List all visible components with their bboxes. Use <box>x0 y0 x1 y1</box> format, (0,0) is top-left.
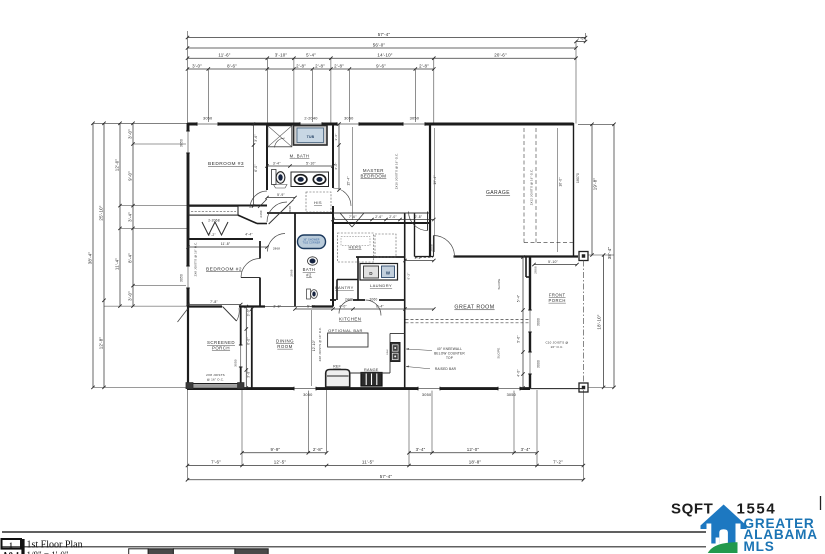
svg-text:GREAT ROOM: GREAT ROOM <box>454 305 494 311</box>
pantry door arc <box>339 300 353 314</box>
svg-text:12'-8": 12'-8" <box>99 337 104 350</box>
svg-text:3050: 3050 <box>203 115 213 120</box>
kitchen refrigerator <box>326 370 350 388</box>
exterior wall: left <box>187 123 190 307</box>
kitchen right wall / great room left <box>404 213 406 388</box>
bedroom3 bottom wall <box>188 205 267 207</box>
window 3050 rear wall bedroom3 <box>197 122 218 126</box>
svg-text:TOP: TOP <box>446 356 453 360</box>
svg-text:5'-4": 5'-4" <box>517 294 521 302</box>
interior dim bedroom3 right 3'-6 6'-0 <box>253 124 255 206</box>
window 3000 great room right wall 2 <box>528 352 532 374</box>
svg-text:SINK: SINK <box>387 349 389 355</box>
svg-text:6'-0": 6'-0" <box>254 164 258 171</box>
svg-text:16" O.C.: 16" O.C. <box>550 345 563 349</box>
svg-text:14'-10": 14'-10" <box>377 53 392 58</box>
svg-text:3'-8": 3'-8" <box>247 370 251 377</box>
svg-text:3'-4": 3'-4" <box>521 447 531 452</box>
bottom extension lines <box>187 390 189 480</box>
interior dim 5'-10 porch top <box>534 264 577 266</box>
hall top wall below master <box>333 212 430 214</box>
front entry door arc <box>434 236 455 257</box>
tub in master bath <box>294 126 328 146</box>
bath2 toilet upper <box>308 257 318 265</box>
window 3050 left wall bedroom3 <box>186 131 190 153</box>
svg-text:C10 JOISTS @: C10 JOISTS @ <box>545 341 568 345</box>
interior dim mbath right small <box>338 124 340 190</box>
svg-text:MASTER: MASTER <box>363 168 384 173</box>
dimension 57'-4" overall bottom <box>188 479 584 481</box>
garage ceiling joist dashed line <box>523 128 525 243</box>
window 3000 great room right wall <box>528 310 532 332</box>
kitchen optional bar box <box>328 333 368 347</box>
svg-text:2'-0": 2'-0" <box>389 215 397 219</box>
dimension string 3'-0 / 8'-6 / 2'-8 x3 / 9'-6 / 2'-8 <box>188 68 434 70</box>
garage header dashed line <box>524 242 573 244</box>
svg-text:6'-0": 6'-0" <box>247 337 251 344</box>
dimension 18'-10" right of porch <box>603 255 605 387</box>
interior dim 11'-8 below closet <box>188 246 267 248</box>
bath2 toilet <box>307 289 311 299</box>
laundry W washer box <box>382 266 395 278</box>
left extension lines <box>93 122 188 124</box>
bedroom2 / porch wall (bottom of left wing) <box>188 305 222 307</box>
svg-text:3'-4": 3'-4" <box>273 161 281 165</box>
bedroom2 right wall <box>259 241 261 259</box>
svg-text:2'-8": 2'-8" <box>296 63 306 68</box>
svg-text:7'-2": 7'-2" <box>208 233 216 237</box>
svg-text:#2: #2 <box>306 272 312 277</box>
svg-text:3000: 3000 <box>537 360 541 368</box>
svg-text:2'-8": 2'-8" <box>415 215 423 219</box>
interior dim porch-dining 3'-0 6'-0 3'-8 <box>245 307 247 389</box>
laundry D dryer box <box>360 264 398 281</box>
dimension 38'-4" left overall <box>92 123 94 387</box>
sheet right border tick <box>820 496 822 510</box>
closet 2-2068 box <box>189 206 238 215</box>
svg-text:GARAGE: GARAGE <box>486 190 510 196</box>
kitchen bar counter <box>350 372 390 374</box>
svg-text:3050: 3050 <box>180 139 184 147</box>
svg-text:3050: 3050 <box>422 392 432 397</box>
interior dim garage right 16'-0 line <box>557 128 559 252</box>
svg-text:1/8" = 1'-0": 1/8" = 1'-0" <box>27 550 69 554</box>
interior dim 3'-4 5'-10 mbath <box>267 165 333 167</box>
svg-text:2-2068: 2-2068 <box>208 219 219 223</box>
svg-text:2'-8": 2'-8" <box>334 63 344 68</box>
svg-text:TUB: TUB <box>307 135 315 139</box>
pantry top wall <box>337 279 358 281</box>
svg-text:3000: 3000 <box>537 318 541 326</box>
window 3050 bottom wall dining <box>294 387 316 391</box>
master interior dim 15'-4 <box>352 127 354 220</box>
svg-text:SQFT: SQFT <box>671 501 713 518</box>
svg-text:1'-6": 1'-6" <box>577 37 585 41</box>
interior dim 4'-2 foyer <box>405 260 434 262</box>
interior dim garage left 19'-4 line <box>434 128 436 252</box>
right extension lines <box>578 123 614 125</box>
dimension 38'-4" right overall <box>613 124 615 387</box>
svg-text:12'-10": 12'-10" <box>312 340 316 351</box>
svg-text:5'-9": 5'-9" <box>277 193 285 197</box>
title block vertical bar <box>21 539 24 554</box>
foyer right wall piece <box>414 213 416 257</box>
bedroom3 door arc (bottom wall) <box>250 191 267 208</box>
dimension 1'-6" top right <box>576 41 586 43</box>
sheet number box with 1 <box>2 539 22 549</box>
laundry left wall <box>357 257 359 300</box>
laundry-pantry bottom wall <box>330 299 336 301</box>
svg-text:4'-4": 4'-4" <box>245 232 253 236</box>
interior dim great room right 5'-4 5'-6 4'-0 <box>522 257 524 388</box>
svg-text:11'-6": 11'-6" <box>218 53 230 58</box>
svg-text:2X8 JOISTS: 2X8 JOISTS <box>206 373 225 377</box>
master bath vanity with two sinks <box>291 172 329 187</box>
svg-text:9'-0": 9'-0" <box>128 171 133 181</box>
svg-text:9'-9": 9'-9" <box>270 447 280 452</box>
svg-text:1: 1 <box>9 541 13 549</box>
window 3050 screened porch right wall <box>239 345 243 367</box>
svg-text:PANTRY: PANTRY <box>335 285 354 290</box>
master bath toilet <box>272 170 277 185</box>
svg-text:12'-0": 12'-0" <box>115 159 120 172</box>
garage left wall <box>429 124 431 257</box>
svg-text:40" KNEEWALL: 40" KNEEWALL <box>437 347 462 351</box>
svg-text:2'-8": 2'-8" <box>313 447 323 452</box>
HIS closet dashed <box>306 192 331 212</box>
front porch dash-dot edge <box>582 261 584 384</box>
garage right wall with 18070 garage door <box>573 123 575 257</box>
svg-text:REF: REF <box>333 365 341 369</box>
svg-text:W: W <box>386 270 391 275</box>
svg-text:7'-6": 7'-6" <box>211 459 221 464</box>
svg-text:18'-10": 18'-10" <box>597 314 602 329</box>
svg-text:1554: 1554 <box>737 501 777 518</box>
svg-text:2'-8": 2'-8" <box>315 63 325 68</box>
svg-text:7'-8": 7'-8" <box>210 300 218 304</box>
svg-text:KITCHEN: KITCHEN <box>339 317 361 322</box>
svg-text:2X12 JOISTS @ 16" O.C.: 2X12 JOISTS @ 16" O.C. <box>530 169 534 206</box>
svg-text:BEDROOM #3: BEDROOM #3 <box>208 161 244 167</box>
svg-text:3050: 3050 <box>303 392 313 397</box>
svg-text:11'-4": 11'-4" <box>115 258 120 270</box>
svg-text:3'-0": 3'-0" <box>247 309 251 316</box>
svg-text:5'-10": 5'-10" <box>306 161 316 165</box>
svg-text:DINING: DINING <box>276 339 294 344</box>
svg-text:11'-5": 11'-5" <box>362 459 374 464</box>
svg-text:18070: 18070 <box>576 173 580 183</box>
title block second rule <box>2 546 706 548</box>
interior dim string mid 2'-8 5'-6 4' 6'-4 <box>295 308 434 310</box>
svg-text:4'-0": 4'-0" <box>339 305 347 309</box>
porch corner post bottom-right <box>238 383 244 389</box>
svg-text:19'-4": 19'-4" <box>433 175 437 184</box>
kitchen range <box>361 373 382 387</box>
title block top rule <box>2 531 706 533</box>
kitchen sink unit <box>391 343 401 362</box>
svg-text:16'-0": 16'-0" <box>558 177 562 186</box>
svg-text:2X8 JOISTS @ 16" O.C.: 2X8 JOISTS @ 16" O.C. <box>318 327 322 362</box>
coat closet dashed right of hers <box>375 234 396 257</box>
porch-dining gap wall stub <box>241 306 252 308</box>
front wall of house / garage bottom <box>454 255 579 257</box>
svg-text:15'-4": 15'-4" <box>347 176 351 185</box>
svg-text:6'-4": 6'-4" <box>376 305 384 309</box>
great room kneewall dashed lines <box>406 319 530 321</box>
svg-text:4'-0": 4'-0" <box>517 369 521 377</box>
svg-text:57'-4": 57'-4" <box>380 474 393 479</box>
svg-text:@ 16" O.C.: @ 16" O.C. <box>207 378 224 382</box>
svg-text:BELOW COUNTER: BELOW COUNTER <box>434 352 465 356</box>
svg-text:2068: 2068 <box>288 206 292 213</box>
exterior wall: top (rear) of house <box>188 123 574 126</box>
svg-text:12'-5": 12'-5" <box>274 459 287 464</box>
hall double door leaves <box>340 213 352 227</box>
window 3050 rear wall master <box>337 122 359 126</box>
exterior wall: bottom <box>187 387 530 390</box>
svg-text:8'-6": 8'-6" <box>227 63 237 68</box>
closet chamfer wall <box>238 215 257 223</box>
svg-text:12'-0": 12'-0" <box>467 447 480 452</box>
svg-text:HERS: HERS <box>349 245 362 250</box>
window 3050 left wall bedroom2 <box>186 266 190 288</box>
svg-text:BATH: BATH <box>303 267 316 272</box>
svg-text:3'-4": 3'-4" <box>128 212 133 222</box>
svg-text:SCREENED: SCREENED <box>207 340 235 345</box>
svg-text:7'-6": 7'-6" <box>349 215 357 219</box>
foyer threshold dashed <box>415 257 433 259</box>
screened porch left wall <box>187 307 189 389</box>
svg-text:36" SHOWER: 36" SHOWER <box>303 239 319 241</box>
svg-text:2X10 JOISTS @ 16" O.C.: 2X10 JOISTS @ 16" O.C. <box>394 153 398 190</box>
svg-text:SLOPE: SLOPE <box>497 278 501 289</box>
front porch post top <box>579 252 588 261</box>
svg-text:2060: 2060 <box>370 298 378 302</box>
svg-text:2X8 JOISTS @ 16" O.C.: 2X8 JOISTS @ 16" O.C. <box>194 242 198 277</box>
front porch post bottom <box>579 383 588 392</box>
svg-text:2968: 2968 <box>289 269 293 276</box>
top extension lines <box>187 69 189 124</box>
laundry door arc <box>366 300 382 316</box>
svg-text:20'-6": 20'-6" <box>494 53 507 58</box>
mbath bottom wall <box>267 212 333 214</box>
svg-text:3'-0": 3'-0" <box>128 129 133 139</box>
svg-text:M. BATH: M. BATH <box>290 154 310 159</box>
svg-text:6'-0": 6'-0" <box>334 163 338 170</box>
front porch bottom edge <box>530 388 583 390</box>
svg-text:3'-4": 3'-4" <box>416 447 426 452</box>
svg-text:RANGE: RANGE <box>364 368 379 372</box>
bedroom3 / mbath wall <box>266 124 268 190</box>
linen closet with X next to tub <box>268 126 292 147</box>
svg-text:57'-4": 57'-4" <box>378 32 391 37</box>
graphic scale bar (clipped at page bottom) <box>129 549 149 554</box>
svg-text:3868: 3868 <box>430 244 434 252</box>
svg-text:3050: 3050 <box>410 115 420 120</box>
screened porch right wall <box>240 307 242 389</box>
svg-text:2'-6": 2'-6" <box>375 215 383 219</box>
pantry left wall <box>336 280 338 301</box>
master door arc <box>409 212 428 231</box>
svg-text:18'-8": 18'-8" <box>469 459 482 464</box>
svg-text:3'-6": 3'-6" <box>254 134 258 141</box>
svg-text:FRONT: FRONT <box>549 293 566 298</box>
dimension string 11'-6 / 3'-10 / 5'-4 / 14'-10 / 20'-6 <box>188 57 577 59</box>
svg-text:6'-2": 6'-2" <box>407 273 411 280</box>
svg-text:OPTIONAL BAR: OPTIONAL BAR <box>328 328 363 333</box>
svg-text:2868: 2868 <box>273 247 280 251</box>
svg-text:38'-4": 38'-4" <box>88 252 93 265</box>
screened porch floor band <box>189 384 240 388</box>
HERS closet dashed <box>338 233 374 262</box>
logo house roof and body (Greater Alabama MLS) <box>701 505 747 544</box>
svg-text:PORCH: PORCH <box>212 345 230 350</box>
svg-text:LAUNDRY: LAUNDRY <box>370 283 392 288</box>
svg-text:5'-6": 5'-6" <box>307 305 315 309</box>
window 3050 bottom wall great room <box>418 387 440 391</box>
svg-text:1st Floor Plan: 1st Floor Plan <box>27 540 83 551</box>
dimension 25'-10" / 12'-8" left <box>103 123 105 387</box>
logo house white door <box>719 529 728 543</box>
svg-text:38'-4": 38'-4" <box>607 247 612 260</box>
svg-text:2460: 2460 <box>259 210 263 217</box>
screened porch door leaf and arc <box>223 307 237 322</box>
svg-text:RAISED BAR: RAISED BAR <box>435 367 457 371</box>
master closet door arc <box>333 188 351 206</box>
svg-text:3'-0": 3'-0" <box>192 63 202 68</box>
great room right wall <box>529 257 531 389</box>
svg-text:3050: 3050 <box>180 274 184 282</box>
svg-text:3050: 3050 <box>233 359 237 367</box>
screened porch bottom inner line <box>188 383 241 385</box>
interior dim 5'-9 mbath <box>267 197 295 199</box>
svg-text:19'-8": 19'-8" <box>593 178 598 191</box>
bedroom2 door arc <box>241 259 260 278</box>
svg-text:2-2040: 2-2040 <box>304 115 318 120</box>
interior dim hall 7'-6 2'-6 2'-8 <box>333 219 434 221</box>
svg-text:3'-0": 3'-0" <box>128 291 133 301</box>
dimension string 3'-4 / 12'-0 / 3'-4 bottom right-of-center <box>409 452 537 454</box>
dimension 56'-0" top <box>188 47 577 49</box>
svg-text:2'-8": 2'-8" <box>273 305 281 309</box>
window 3050 rear wall master 2 <box>403 122 425 126</box>
great room right wall pier stub <box>525 258 527 278</box>
logo green swoosh <box>708 542 738 553</box>
mbath hall door arc <box>267 202 287 222</box>
dimension 12'-0 / 11'-4 left <box>119 123 121 306</box>
closet bifold doors W <box>202 222 228 235</box>
svg-text:9'-6": 9'-6" <box>376 63 386 68</box>
dining left wall <box>251 308 253 388</box>
svg-text:HIS: HIS <box>314 200 322 205</box>
36in shower tub oval in bath2 <box>298 235 326 249</box>
window 2-2040 rear wall mbath <box>300 122 322 126</box>
svg-text:MLS: MLS <box>744 539 775 554</box>
svg-text:3'-6": 3'-6" <box>334 134 338 141</box>
mbath-hall door leaf diagonal <box>269 200 294 224</box>
window 3050 bottom wall great room 2 <box>498 387 520 391</box>
svg-text:BEDROOM: BEDROOM <box>360 173 386 178</box>
svg-text:2'-8": 2'-8" <box>419 63 429 68</box>
svg-text:D: D <box>369 271 373 276</box>
svg-text:SLOPE: SLOPE <box>496 347 500 358</box>
svg-text:A0.1: A0.1 <box>2 551 20 554</box>
dimension string 9'-9 / 2'-8 bottom left-of-center <box>242 452 327 454</box>
svg-text:7'-2": 7'-2" <box>553 459 563 464</box>
svg-text:5'-4": 5'-4" <box>306 53 316 58</box>
svg-text:8'-4": 8'-4" <box>128 253 133 263</box>
svg-text:25'-10": 25'-10" <box>99 205 104 220</box>
svg-text:2440: 2440 <box>345 298 353 302</box>
svg-text:5'-10": 5'-10" <box>548 260 558 264</box>
svg-text:PORCH: PORCH <box>549 298 566 303</box>
svg-text:11'-8": 11'-8" <box>221 242 231 246</box>
svg-text:5'-6": 5'-6" <box>517 335 521 343</box>
svg-text:3'-10": 3'-10" <box>275 53 288 58</box>
interior dim string mid 7'-8 <box>188 304 241 306</box>
svg-text:TILE CORNER: TILE CORNER <box>303 243 321 245</box>
svg-text:BEDROOM #2: BEDROOM #2 <box>206 267 242 273</box>
svg-text:3050: 3050 <box>507 392 517 397</box>
dimension 19'-8" right of garage <box>591 124 593 255</box>
porch corner post bottom-left <box>186 383 193 389</box>
svg-text:56'-0": 56'-0" <box>373 42 386 47</box>
svg-text:4'-2": 4'-2" <box>415 256 423 260</box>
svg-text:2866: 2866 <box>534 266 538 274</box>
dimension 3'-0 / 9'-0 / 3'-4 / 8'-4 / 3'-0 left <box>132 123 134 306</box>
master bottom wall <box>333 222 430 224</box>
svg-text:ROOM: ROOM <box>277 344 292 349</box>
bath2 left wall <box>294 213 296 307</box>
bedroom2 top wall <box>188 238 253 240</box>
mbath / master wall <box>332 124 334 188</box>
dimension string 7'-6 / 12'-5 / 11'-5 / 18'-8 / 7'-2 bottom <box>188 465 584 467</box>
laundry top wall <box>356 256 405 258</box>
bath2 door arc <box>268 234 286 252</box>
interior dim dining 12'-10 line <box>311 310 313 386</box>
exterior door leaf left of porch <box>178 309 188 322</box>
dimension 57'-4" overall top <box>188 37 586 39</box>
svg-text:3050: 3050 <box>344 115 354 120</box>
